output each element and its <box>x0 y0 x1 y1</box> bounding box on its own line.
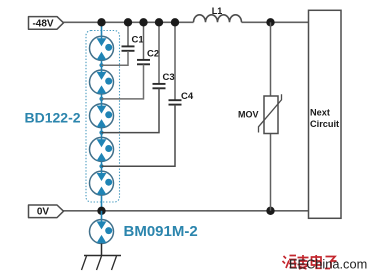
surge protector BD122-2 element 2 <box>90 70 114 94</box>
wire: top bus right segment after L1 <box>242 21 309 23</box>
capacitor C2 <box>102 22 160 99</box>
wire: BD122-2 chain vertical lead <box>101 22 103 211</box>
node dot bottom bus at chain <box>97 207 105 215</box>
svg-text:BM091M-2: BM091M-2 <box>124 223 198 240</box>
capacitor C4 <box>102 22 194 166</box>
surge protector BM091M-2 <box>90 211 114 256</box>
capacitor C1 <box>102 22 145 65</box>
svg-text:L1: L1 <box>212 6 223 16</box>
wire: 0V bottom bus <box>63 210 309 212</box>
svg-text:C4: C4 <box>181 91 194 102</box>
node: chain junction 1 <box>99 63 103 67</box>
surge protector BD122-2 element 3 <box>90 104 114 128</box>
watermark EEChina.com <box>289 257 367 272</box>
chassis ground <box>82 256 122 271</box>
svg-text:BD122-2: BD122-2 <box>25 109 81 125</box>
node dot top bus at C3 <box>155 18 163 26</box>
node dot top bus at C1 <box>124 18 132 26</box>
node dot top bus at MOV branch <box>266 18 274 26</box>
watermark red CJK glyphs <box>283 255 337 269</box>
svg-text:C3: C3 <box>163 72 175 83</box>
net flag -48V <box>29 17 64 30</box>
svg-text:0V: 0V <box>37 207 50 218</box>
dashed box around BD122-2 array <box>86 31 120 203</box>
capacitor C3 <box>102 22 175 132</box>
svg-text:MOV: MOV <box>238 110 259 120</box>
svg-text:Next: Next <box>310 107 330 117</box>
node: chain junction 4 <box>99 164 103 168</box>
svg-text:Circuit: Circuit <box>310 119 339 129</box>
surge protector BD122-2 element 1 <box>90 36 114 60</box>
svg-text:C1: C1 <box>132 35 145 46</box>
node dot bottom bus at MOV branch <box>266 207 274 215</box>
svg-text:EEChina.com: EEChina.com <box>289 257 367 272</box>
next circuit box <box>309 10 342 218</box>
node: chain junction 3 <box>99 131 103 135</box>
wire: -48V top bus left segment <box>63 21 194 23</box>
surge protector BD122-2 element 5 <box>90 171 114 195</box>
node: chain junction 2 <box>99 97 103 101</box>
svg-text:-48V: -48V <box>32 18 53 29</box>
inductor L1 <box>194 6 242 22</box>
varistor MOV <box>238 22 282 211</box>
net flag 0V <box>29 205 64 218</box>
label BD122-2 <box>25 109 81 125</box>
node dot top bus at C2 <box>139 18 147 26</box>
label BM091M-2 <box>124 223 198 240</box>
svg-text:C2: C2 <box>147 49 159 60</box>
surge protector BD122-2 element 4 <box>90 137 114 161</box>
node dot top bus at C4 <box>171 18 179 26</box>
node dot top bus at chain <box>97 18 105 26</box>
